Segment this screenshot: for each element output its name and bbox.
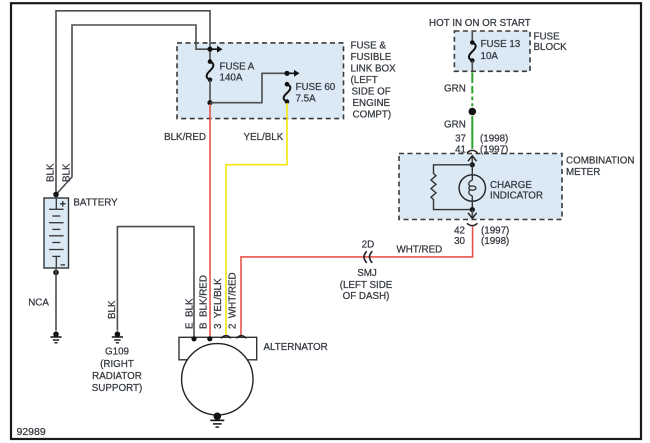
svg-text:10A: 10A	[481, 51, 499, 62]
charge indicator lamp	[459, 175, 485, 201]
node splice on GRN wire	[469, 108, 477, 116]
svg-text:CHARGE: CHARGE	[490, 180, 532, 191]
svg-text:37: 37	[455, 134, 466, 145]
wire GRN dashed segment	[471, 73, 473, 108]
fuse 13 10A symbol	[470, 40, 475, 45]
svg-text:INDICATOR: INDICATOR	[490, 191, 543, 202]
svg-text:3 YEL/BLK: 3 YEL/BLK	[213, 278, 224, 329]
svg-text:HOT IN ON OR START: HOT IN ON OR START	[429, 18, 531, 29]
ground G109	[115, 331, 121, 337]
svg-text:FUSE &: FUSE &	[351, 40, 387, 51]
svg-text:140A: 140A	[220, 72, 243, 83]
svg-text:FUSIBLE: FUSIBLE	[351, 52, 392, 63]
wire fuse 13 output segment	[471, 61, 473, 71]
svg-text:LINK BOX: LINK BOX	[351, 63, 397, 74]
svg-text:(1998): (1998)	[481, 236, 509, 247]
resistor branch of charge indicator	[431, 165, 472, 210]
svg-text:WHT/RED: WHT/RED	[397, 245, 443, 256]
svg-text:YEL/BLK: YEL/BLK	[244, 132, 284, 143]
fuse block box (dashed enclosure)	[454, 31, 530, 71]
battery minus mark	[61, 264, 65, 266]
svg-text:(1997): (1997)	[480, 145, 508, 156]
svg-text:RADIATOR: RADIATOR	[92, 371, 142, 382]
node battery positive junction	[53, 192, 59, 198]
svg-text:(LEFT: (LEFT	[351, 75, 378, 86]
alternator terminal block	[179, 337, 257, 360]
wire GRN solid segment to combination meter pin 37/41	[471, 116, 473, 149]
battery	[44, 198, 69, 268]
svg-text:BLOCK: BLOCK	[534, 42, 568, 53]
wire BLK (inner) battery positive to fuse A node	[56, 25, 210, 195]
arrow into combination meter	[471, 156, 473, 165]
svg-text:FUSE A: FUSE A	[220, 61, 255, 72]
wire WHT/RED combination meter to alternator terminal 2	[241, 227, 473, 339]
svg-text:B BLK/RED: B BLK/RED	[199, 275, 210, 329]
connector arc at combination meter pin 37/41	[467, 150, 478, 152]
svg-text:BLK: BLK	[46, 163, 57, 182]
svg-text:METER: METER	[566, 167, 600, 178]
svg-text:30: 30	[454, 236, 465, 247]
svg-text:42: 42	[454, 226, 465, 237]
node junction bottom inside meter	[470, 207, 475, 212]
svg-text:GRN: GRN	[444, 119, 466, 130]
svg-text:BLK/RED: BLK/RED	[164, 132, 206, 143]
node junction top inside meter	[470, 162, 475, 167]
svg-text:(LEFT SIDE: (LEFT SIDE	[340, 280, 393, 291]
svg-text:41: 41	[455, 145, 466, 156]
svg-text:ALTERNATOR: ALTERNATOR	[264, 342, 328, 353]
node junction below fuse A	[207, 100, 212, 105]
svg-text:FUSE 13: FUSE 13	[481, 39, 521, 50]
svg-text:E BLK: E BLK	[185, 298, 196, 329]
svg-text:92989: 92989	[17, 426, 46, 438]
wire BLK (outer) battery positive to fuse A node	[56, 11, 210, 195]
svg-text:2 WHT/RED: 2 WHT/RED	[228, 272, 239, 329]
pin 3 connector arc	[221, 336, 231, 339]
fuse A 140A symbol	[208, 59, 213, 64]
wire BLK alternator terminal E to ground G109	[117, 227, 194, 339]
svg-text:NCA: NCA	[28, 297, 49, 308]
svg-text:BATTERY: BATTERY	[73, 197, 118, 208]
svg-text:(1997): (1997)	[481, 226, 509, 237]
svg-text:FUSE 60: FUSE 60	[296, 82, 336, 93]
svg-text:COMBINATION: COMBINATION	[566, 155, 634, 166]
connector arc at combination meter pin 42/30	[467, 223, 478, 225]
fuse &amp; fusible link box (dashed enclosure)	[177, 43, 344, 119]
svg-text:2D: 2D	[362, 240, 375, 251]
battery plus mark	[60, 203, 66, 205]
svg-text:COMPT): COMPT)	[353, 109, 392, 120]
wire YEL/BLK fuse 60 to alternator terminal 3	[226, 103, 287, 338]
svg-text:GRN: GRN	[444, 84, 466, 95]
wire hot feed inside fuse block	[471, 32, 473, 43]
pin E terminal dot	[191, 336, 196, 341]
wire jog fuse A node to fuse 60 feed	[210, 73, 287, 102]
wire BLK/RED fuse A to alternator terminal B	[209, 104, 211, 339]
svg-text:ENGINE: ENGINE	[353, 98, 391, 109]
pin 2 connector arc	[236, 336, 246, 339]
combination meter box (dashed enclosure)	[399, 154, 562, 220]
ground (alternator case)	[214, 413, 222, 421]
pin B terminal dot	[207, 336, 212, 341]
svg-text:(1998): (1998)	[480, 134, 508, 145]
svg-text:7.5A: 7.5A	[296, 94, 317, 105]
wire fuse A output segment	[209, 80, 211, 103]
alternator body	[182, 344, 253, 415]
svg-text:BLK: BLK	[107, 300, 118, 319]
node junction at fuse 60 feed with arrow	[284, 71, 289, 76]
svg-text:G109: G109	[105, 347, 129, 358]
node junction at fuse A feed with arrow	[207, 47, 212, 52]
svg-text:BLK: BLK	[61, 163, 72, 182]
svg-text:(RIGHT: (RIGHT	[100, 359, 134, 370]
arrow out of combination meter	[471, 210, 473, 218]
svg-text:SMJ: SMJ	[357, 268, 377, 279]
node battery negative junction	[53, 270, 59, 276]
connector SMJ 2D inline arcs	[364, 251, 367, 263]
ground (battery NCA)	[53, 331, 59, 337]
fuse 60 7.5A symbol	[285, 82, 290, 87]
svg-text:SIDE OF: SIDE OF	[352, 86, 391, 97]
svg-text:OF DASH): OF DASH)	[343, 291, 390, 302]
svg-text:SUPPORT): SUPPORT)	[92, 383, 142, 394]
wire NCA battery negative to ground	[55, 268, 57, 331]
